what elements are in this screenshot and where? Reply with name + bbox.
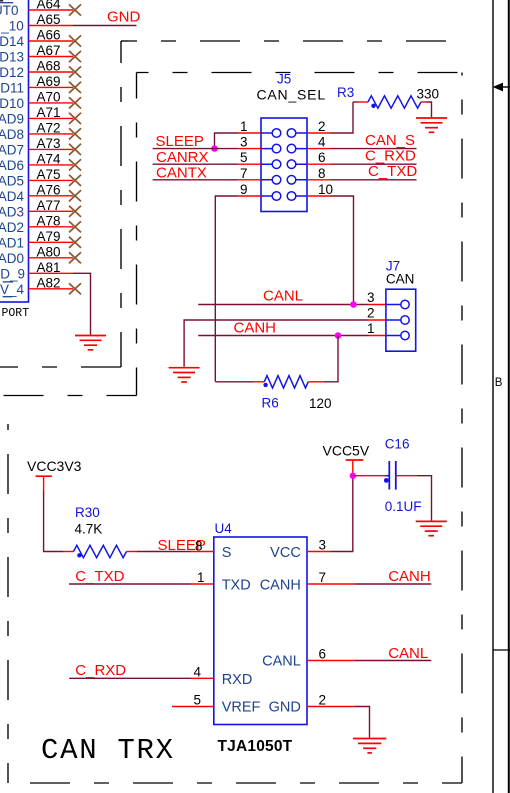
wire C_TXD net (J5)	[331, 179, 417, 181]
svg-text:CANRX: CANRX	[156, 149, 209, 166]
svg-text:A81: A81	[37, 260, 61, 275]
svg-text:CANH: CANH	[260, 578, 301, 594]
resistor R3	[337, 85, 439, 108]
svg-text:9: 9	[240, 182, 248, 197]
svg-text:D_9: D_9	[0, 266, 25, 281]
svg-text:4: 4	[318, 135, 326, 150]
svg-text:A66: A66	[37, 28, 61, 43]
svg-text:CAN_S: CAN_S	[365, 132, 415, 149]
ground symbol (C16)	[416, 521, 447, 535]
pin A79 (AD1)	[0, 229, 73, 250]
wire U4 pin5 VREF stub extension	[172, 706, 191, 708]
svg-text:_10: _10	[0, 19, 24, 34]
svg-text:8: 8	[318, 166, 326, 181]
svg-text:R30: R30	[75, 505, 100, 520]
dashed block boundary (parallel port region)	[0, 41, 448, 367]
pin A68 (D12)	[0, 59, 73, 80]
svg-text:10: 10	[318, 182, 333, 197]
svg-text:A72: A72	[37, 121, 61, 136]
svg-text:A67: A67	[37, 43, 61, 58]
svg-text:7: 7	[319, 570, 327, 585]
svg-text:AD4: AD4	[0, 189, 24, 204]
pin A78 (AD2)	[0, 213, 73, 234]
wire J7 pin2 to ground	[184, 320, 368, 367]
svg-text:AD2: AD2	[0, 220, 24, 235]
wire C_TXD net to U4 pin1	[69, 583, 191, 585]
junction CANL/pin10	[350, 301, 357, 308]
no-connect X on A82	[69, 283, 81, 294]
no-connect X on A75	[69, 175, 81, 186]
pin A67 (D13)	[0, 43, 73, 64]
wire CANH net (U4 pin7)	[355, 583, 432, 585]
no-connect X on A67	[69, 51, 81, 62]
svg-text:A70: A70	[37, 90, 61, 105]
wire CAN_S net	[331, 148, 417, 150]
wire CANRX net	[153, 163, 238, 165]
off-page arrow	[493, 83, 510, 92]
ground symbol (U4 GND)	[353, 739, 386, 753]
wire U4 pin2 GND to ground	[354, 707, 369, 738]
svg-text:AD0: AD0	[0, 251, 24, 266]
wire CANTX net	[153, 179, 238, 181]
wire C_RXD net (J5)	[331, 163, 417, 165]
svg-text:5: 5	[194, 693, 202, 708]
junction VCC5V node	[350, 473, 356, 479]
svg-text:3: 3	[319, 538, 327, 553]
wire SLEEP net	[153, 148, 238, 150]
svg-text:A71: A71	[37, 105, 61, 120]
svg-text:R3: R3	[337, 85, 354, 100]
svg-text:C_RXD: C_RXD	[75, 662, 126, 679]
svg-text:TJA1050T: TJA1050T	[218, 738, 293, 755]
svg-text:330: 330	[417, 87, 440, 102]
connector J7 (CAN)	[386, 259, 416, 352]
no-connect X on A64	[69, 4, 81, 15]
svg-text:D11: D11	[0, 80, 24, 95]
svg-text:AD3: AD3	[0, 204, 24, 219]
no-connect X on A73	[69, 144, 81, 155]
svg-text:C16: C16	[385, 437, 410, 452]
svg-text:A82: A82	[37, 275, 61, 290]
svg-text:A65: A65	[37, 12, 61, 27]
svg-text:6: 6	[318, 150, 326, 165]
svg-text:5: 5	[240, 150, 248, 165]
svg-text:J5: J5	[277, 72, 291, 87]
svg-text:2: 2	[319, 693, 327, 708]
svg-text:VREF: VREF	[222, 700, 261, 716]
power VCC3V3	[27, 458, 82, 491]
no-connect X on A66	[69, 35, 81, 46]
svg-text:C_TXD: C_TXD	[368, 163, 417, 180]
svg-text:A78: A78	[37, 213, 61, 228]
svg-text:CANTX: CANTX	[156, 165, 207, 182]
svg-text:GND: GND	[269, 700, 301, 716]
pin A75 (AD5)	[0, 167, 73, 188]
svg-text:A68: A68	[37, 59, 61, 74]
J7 pin stubs	[369, 305, 386, 336]
svg-text:C_TXD: C_TXD	[75, 568, 124, 585]
svg-text:1: 1	[240, 119, 248, 134]
connector J5 (CAN_SEL header)	[257, 72, 326, 212]
pin A69 (D11)	[0, 74, 73, 95]
svg-text:TXD: TXD	[222, 578, 251, 594]
U4 pin stubs	[191, 552, 355, 707]
svg-text:VCC5V: VCC5V	[323, 443, 370, 459]
svg-text:D14: D14	[0, 34, 24, 49]
wire SLEEP net to U4	[137, 551, 191, 553]
svg-text:6: 6	[319, 647, 327, 662]
no-connect X on A72	[69, 128, 81, 139]
svg-text:1: 1	[197, 570, 205, 585]
resistor R6	[254, 376, 332, 411]
svg-text:AD7: AD7	[0, 142, 24, 157]
svg-text:A75: A75	[37, 167, 61, 182]
svg-text:CANH: CANH	[388, 568, 431, 585]
svg-text:V_4: V_4	[0, 282, 24, 297]
no-connect X on A79	[69, 237, 81, 248]
no-connect X on A74	[69, 159, 81, 170]
svg-text:3: 3	[367, 290, 375, 305]
svg-text:C_RXD: C_RXD	[365, 148, 416, 165]
svg-text:R6: R6	[262, 396, 279, 411]
wire R6 left lead	[215, 381, 254, 383]
svg-text:VCC3V3: VCC3V3	[27, 458, 82, 474]
ground symbol (J7 pin2)	[169, 368, 200, 382]
svg-text:A76: A76	[37, 182, 61, 197]
svg-text:7: 7	[240, 166, 248, 181]
svg-text:D13: D13	[0, 50, 24, 65]
wire C_RXD net to U4 pin4	[69, 677, 190, 679]
pin A65 (_10)	[0, 12, 73, 33]
wire A81 to ground	[73, 273, 91, 335]
junction CANH/R6	[335, 332, 342, 339]
svg-text:3: 3	[240, 135, 248, 150]
J5 pin numbers	[240, 119, 333, 197]
no-connect X on A77	[69, 206, 81, 217]
pin A73 (AD7)	[0, 136, 73, 157]
svg-text:AD9: AD9	[0, 111, 24, 126]
svg-text:CAN TRX: CAN TRX	[41, 734, 175, 767]
svg-text:A79: A79	[37, 229, 61, 244]
capacitor C16	[384, 437, 422, 515]
svg-text:AD5: AD5	[0, 173, 24, 188]
svg-text:4.7K: 4.7K	[75, 522, 103, 537]
sheet border	[493, 0, 510, 793]
svg-text:1: 1	[367, 321, 375, 336]
no-connect X on A80	[69, 252, 81, 263]
wire VCC5V to C16	[353, 475, 390, 477]
wire GND net from A65	[73, 25, 137, 27]
svg-text:UT0: UT0	[0, 3, 19, 18]
ground symbol (A81 net)	[75, 336, 106, 350]
wire J5 pin9 down to R6	[215, 196, 238, 382]
no-connect X on A76	[69, 190, 81, 201]
wire R3 to ground	[427, 102, 432, 117]
wire C16 to ground	[417, 476, 432, 521]
wire J5 pin2 up to R3	[331, 102, 354, 133]
pin A74 (AD6)	[0, 152, 73, 173]
svg-text:B: B	[495, 377, 503, 389]
svg-text:S: S	[222, 545, 232, 561]
pin A71 (AD9)	[0, 105, 73, 126]
svg-text:CAN: CAN	[386, 272, 415, 287]
pin A66 (D14)	[0, 28, 73, 49]
svg-text:4: 4	[194, 664, 202, 679]
no-connect X on A68	[69, 66, 81, 77]
svg-text:GND: GND	[107, 9, 141, 26]
svg-text:CANL: CANL	[262, 654, 301, 670]
svg-text:A64: A64	[37, 0, 62, 12]
U4 pin numbers	[194, 538, 327, 708]
no-connect X on A78	[69, 221, 81, 232]
svg-text:A73: A73	[37, 136, 61, 151]
svg-text:CANH: CANH	[234, 320, 277, 337]
ground symbol (R3)	[416, 118, 447, 132]
wire CANH net (J7 pin1)	[198, 335, 368, 337]
svg-text:RXD: RXD	[222, 672, 253, 688]
no-connect X on A69	[69, 82, 81, 93]
svg-text:8: 8	[195, 539, 203, 554]
svg-text:2: 2	[367, 306, 375, 321]
svg-text:0.1UF: 0.1UF	[385, 499, 422, 514]
svg-text:120: 120	[309, 396, 332, 411]
wire U4 pin3 up to VCC5V	[331, 476, 353, 552]
no-connect X on A70	[69, 97, 81, 108]
svg-text:AD6: AD6	[0, 158, 24, 173]
svg-text:A77: A77	[37, 198, 61, 213]
connector P? (parallel port, left block body)	[0, 0, 29, 320]
svg-text:AD8: AD8	[0, 127, 24, 142]
wire CANL net (J7 pin3)	[198, 304, 368, 306]
pin A77 (AD3)	[0, 198, 73, 219]
no-connect X on A71	[69, 113, 81, 124]
wire R6 right lead up to CANH	[324, 336, 338, 382]
wire J5 pin1 to pin3	[215, 133, 239, 149]
svg-text:A69: A69	[37, 74, 61, 89]
resistor R30	[63, 505, 137, 558]
svg-text:2: 2	[318, 119, 326, 134]
J7 pin numbers	[367, 290, 375, 336]
wire CANL net (U4 pin6)	[355, 660, 432, 662]
pin A70 (D10)	[0, 90, 73, 111]
pin A64 (OUT0)	[0, 0, 73, 18]
svg-text:CANL: CANL	[263, 288, 303, 305]
wire J5 pin10 down to CANL	[331, 196, 354, 305]
svg-text:D10: D10	[0, 96, 24, 111]
svg-text:VCC: VCC	[270, 545, 301, 561]
op-amp U4 (TJA1050T CAN transceiver)	[214, 521, 307, 755]
svg-text:U4: U4	[215, 521, 233, 536]
J5 pin stubs	[238, 133, 331, 196]
svg-text:CAN_SEL: CAN_SEL	[257, 87, 326, 103]
pin A81 (D_9)	[0, 260, 73, 281]
svg-text:A80: A80	[37, 244, 61, 259]
svg-text:AD1: AD1	[0, 235, 24, 250]
power VCC5V	[323, 443, 370, 476]
wire VCC3V3 to R30	[44, 491, 63, 552]
svg-text:SLEEP: SLEEP	[156, 133, 204, 150]
junction on SLEEP net	[211, 145, 218, 152]
svg-text:A74: A74	[37, 152, 62, 167]
svg-text:CANL: CANL	[388, 645, 428, 662]
pin A80 (AD0)	[0, 244, 73, 265]
pin A76 (AD4)	[0, 182, 73, 203]
pin A72 (AD8)	[0, 121, 73, 142]
svg-text:PORT: PORT	[2, 307, 30, 320]
svg-text:D12: D12	[0, 65, 24, 80]
pin A82 (V_4)	[0, 275, 73, 296]
